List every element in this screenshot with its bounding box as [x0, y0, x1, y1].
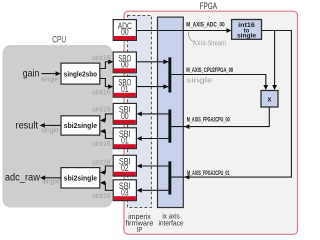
svg-text:IP: IP	[137, 227, 143, 234]
svg-text:00: 00	[121, 60, 129, 70]
svg-text:uint16: uint16	[92, 193, 111, 200]
svg-text:single: single	[41, 127, 59, 134]
svg-text:single2sbo: single2sbo	[64, 69, 98, 78]
svg-text:result: result	[16, 121, 39, 132]
svg-text:M_AXIS_FPGA2CPU_00: M_AXIS_FPGA2CPU_00	[187, 117, 230, 124]
svg-text:AXI4-Stream: AXI4-Stream	[193, 41, 226, 48]
svg-text:single: single	[237, 32, 257, 39]
svg-text:M_AXIS_ADC_00: M_AXIS_ADC_00	[186, 21, 225, 28]
svg-text:adc_raw: adc_raw	[5, 172, 41, 183]
svg-text:sbi2single: sbi2single	[64, 174, 97, 183]
svg-text:gain: gain	[23, 69, 40, 80]
svg-text:interface: interface	[159, 220, 184, 227]
svg-text:FPGA: FPGA	[200, 1, 218, 12]
svg-text:01: 01	[121, 135, 129, 145]
svg-text:sbi2single: sbi2single	[64, 121, 97, 130]
svg-text:CPU: CPU	[52, 34, 66, 45]
svg-text:M_AXIS_FPGA2CPU_01: M_AXIS_FPGA2CPU_01	[187, 170, 230, 177]
svg-text:single: single	[186, 78, 213, 85]
svg-text:01: 01	[121, 84, 129, 94]
svg-text:M_AXIS_CPU2FPGA_00: M_AXIS_CPU2FPGA_00	[186, 67, 233, 74]
svg-text:00: 00	[121, 111, 129, 121]
svg-text:uint16: uint16	[92, 55, 111, 62]
svg-text:uint16: uint16	[92, 90, 111, 97]
svg-text:uint16: uint16	[92, 107, 111, 114]
svg-text:single: single	[42, 179, 60, 186]
svg-text:uint16: uint16	[92, 160, 111, 167]
svg-text:02: 02	[121, 163, 129, 173]
svg-text:03: 03	[121, 187, 129, 197]
svg-text:00: 00	[121, 27, 129, 37]
svg-text:single: single	[41, 77, 59, 84]
svg-text:uint16: uint16	[92, 141, 111, 148]
